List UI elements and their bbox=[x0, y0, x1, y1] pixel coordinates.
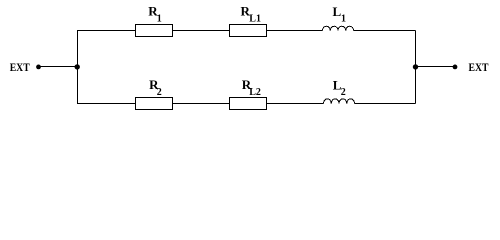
svg-text:2: 2 bbox=[341, 87, 346, 98]
svg-text:1: 1 bbox=[157, 14, 162, 25]
svg-text:L2: L2 bbox=[249, 87, 261, 98]
svg-text:1: 1 bbox=[341, 14, 346, 25]
svg-text:L1: L1 bbox=[249, 14, 261, 25]
svg-text:EXT: EXT bbox=[10, 60, 30, 74]
svg-text:EXT: EXT bbox=[469, 60, 489, 74]
svg-text:2: 2 bbox=[157, 87, 162, 98]
